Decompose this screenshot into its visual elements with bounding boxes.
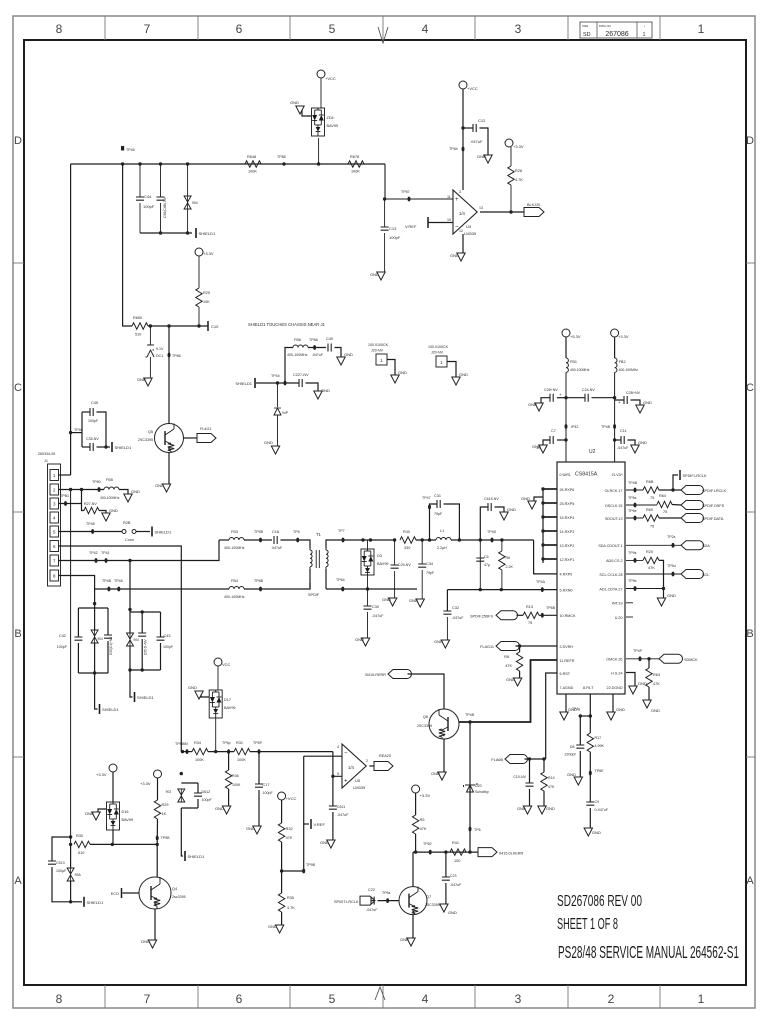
diode D20 schottky: [469, 722, 471, 852]
resistor R5: [415, 793, 417, 815]
svg-text:SHIELD1: SHIELD1: [87, 900, 104, 905]
svg-text:SHIELD1: SHIELD1: [199, 231, 216, 236]
svg-text:LM339: LM339: [464, 231, 477, 236]
svg-text:R14: R14: [548, 776, 555, 780]
svg-text:2: 2: [608, 992, 615, 1006]
node TP4D: [491, 538, 494, 543]
flag SDA: [681, 541, 704, 550]
svg-text:TP4P: TP4P: [633, 649, 643, 653]
svg-text:+VCC: +VCC: [325, 76, 336, 81]
svg-text:13.RXP2: 13.RXP2: [560, 544, 575, 548]
svg-text:DWG NO: DWG NO: [599, 24, 612, 28]
wire T1 secondary bottom: [326, 588, 417, 590]
node TP86: [168, 353, 171, 358]
svg-text:TP6p: TP6p: [222, 741, 231, 745]
capacitor C40: [328, 344, 331, 352]
svg-text:C30: C30: [372, 605, 379, 609]
svg-text:7: 7: [144, 22, 151, 36]
wire vref net vertical: [303, 756, 305, 871]
ground below Q4: [154, 909, 156, 940]
svg-text:47K: 47K: [420, 827, 427, 831]
svg-text:C23: C23: [450, 874, 457, 878]
svg-text:GND: GND: [643, 400, 652, 405]
wire top bus: [71, 163, 385, 165]
inductor L1: [428, 538, 431, 541]
node TP7: [342, 538, 345, 543]
svg-text:100pF: 100pF: [57, 645, 68, 649]
shield below C42: [99, 704, 101, 714]
ground at D8: [574, 777, 582, 785]
svg-text:1/4: 1/4: [348, 765, 354, 770]
svg-text:TP84: TP84: [449, 147, 458, 151]
svg-text:SD: SD: [583, 32, 591, 38]
svg-text:R26: R26: [515, 169, 522, 173]
resistor R40: [400, 537, 416, 543]
wire SDA row: [626, 544, 681, 546]
svg-text:OSCLK.15: OSCLK.15: [605, 504, 623, 508]
svg-text:1: 1: [698, 992, 705, 1006]
wire CDATA row: [626, 588, 664, 590]
inductor FB2: [614, 337, 616, 358]
node TP45: [121, 146, 124, 151]
svg-text:TP5P: TP5P: [253, 741, 263, 745]
op-amp U3: [453, 190, 477, 234]
ground at DGND: [607, 712, 615, 720]
svg-text:AD1.CDTA.27: AD1.CDTA.27: [599, 587, 622, 591]
capacitor C35-NV: [82, 446, 90, 448]
svg-text:V.REF: V.REF: [314, 822, 326, 827]
node TP6C: [541, 613, 544, 618]
svg-text:2SC3395: 2SC3395: [138, 438, 153, 442]
svg-text:R20: R20: [646, 550, 653, 554]
svg-text:C: C: [746, 382, 754, 394]
svg-text:47K: 47K: [648, 566, 655, 570]
svg-text:22.DGND: 22.DGND: [607, 686, 623, 690]
svg-text:100K: 100K: [237, 758, 246, 762]
svg-text:GND: GND: [141, 939, 150, 944]
resistor R650: [132, 323, 148, 329]
svg-text:25C3395: 25C3395: [425, 903, 440, 907]
svg-text:Q4: Q4: [172, 887, 177, 891]
ground at C227: [314, 391, 322, 399]
ground at C12: [484, 155, 492, 163]
svg-text:IP42: IP42: [571, 425, 578, 429]
svg-text:TP5s: TP5s: [628, 496, 637, 500]
svg-text:GND: GND: [651, 708, 660, 713]
svg-text:-047uF: -047uF: [366, 908, 378, 912]
svg-text:INT.19: INT.19: [612, 602, 623, 606]
resistor R32: [281, 800, 283, 823]
svg-text:B: B: [14, 628, 21, 640]
svg-text:C615-NV: C615-NV: [484, 497, 499, 501]
ground below Q8: [443, 739, 445, 772]
svg-text:Schottky: Schottky: [475, 790, 489, 794]
ground at C28: [535, 403, 543, 411]
resistor R6B: [643, 487, 659, 493]
svg-text:79pF: 79pF: [434, 512, 443, 516]
svg-text:TP5B: TP5B: [254, 530, 264, 534]
svg-text:GND: GND: [592, 830, 601, 835]
capacitor C29-NV: [393, 538, 396, 541]
svg-text:GND: GND: [155, 483, 164, 488]
svg-text:D: D: [14, 135, 22, 147]
node TPM row start: [181, 750, 184, 753]
capacitor C34: [421, 540, 423, 564]
capacitor C9: [589, 773, 591, 802]
svg-text:904: 904: [98, 637, 104, 641]
svg-text:C227-NV: C227-NV: [293, 373, 309, 377]
svg-text:TP41: TP41: [101, 551, 110, 555]
svg-text:A: A: [746, 875, 754, 887]
ground at C29: [388, 598, 396, 606]
capacitor C44: [138, 162, 141, 165]
capacitor D612: [197, 783, 199, 793]
svg-text:4: 4: [422, 22, 429, 36]
ground at C40: [337, 357, 345, 365]
svg-text:400-100MHz: 400-100MHz: [287, 353, 308, 357]
svg-text:GND: GND: [398, 370, 407, 375]
svg-text:SHIELD1: SHIELD1: [115, 445, 132, 450]
svg-text:GND: GND: [517, 806, 526, 811]
svg-text:10K: 10K: [203, 300, 210, 304]
wire U3 output: [480, 211, 524, 213]
node TP9B: [302, 869, 305, 874]
svg-text:R5: R5: [420, 818, 425, 822]
svg-text:TP6: TP6: [474, 828, 481, 832]
svg-text:PS28/48 SERVICE MANUAL 264562-: PS28/48 SERVICE MANUAL 264562-S1: [558, 942, 739, 962]
diode D4P: [277, 383, 279, 407]
node TP6 at D20: [469, 827, 472, 832]
wire RST net: [546, 673, 557, 759]
svg-text:GND: GND: [434, 639, 443, 644]
svg-text:GND: GND: [667, 593, 676, 598]
svg-text:TP46: TP46: [74, 428, 83, 432]
node TP88: [282, 162, 285, 165]
capacitor C17: [258, 752, 260, 784]
wire AGND: [565, 694, 567, 712]
svg-text:SPDIF.OSFS: SPDIF.OSFS: [702, 504, 725, 508]
node TP6p: [227, 749, 230, 754]
svg-text:C5: C5: [484, 555, 489, 559]
svg-text:TP88: TP88: [277, 155, 286, 159]
svg-text:0-047uF: 0-047uF: [595, 808, 609, 812]
svg-text:FB5: FB5: [106, 478, 113, 482]
svg-text:R6B: R6B: [646, 480, 654, 484]
ground at D17: [201, 691, 209, 697]
flag SPDIF.DATA: [681, 514, 704, 523]
svg-text:TP4B: TP4B: [601, 425, 611, 429]
svg-text:DC1: DC1: [156, 354, 163, 358]
terminal C10: [207, 321, 209, 331]
wire T1 secondary top: [326, 540, 395, 548]
svg-text:12: 12: [459, 229, 463, 233]
shield tap SPDIF.LRCLK: [673, 475, 678, 490]
svg-text:C34: C34: [426, 562, 433, 566]
svg-text:4.99K: 4.99K: [595, 744, 605, 748]
node TP84: [462, 147, 465, 152]
svg-text:100.0100CK: 100.0100CK: [368, 343, 389, 347]
svg-text:GND: GND: [477, 154, 486, 159]
suppressor 904 bottom: [70, 844, 72, 868]
svg-text:5: 5: [329, 22, 336, 36]
node TP6E: [589, 771, 592, 776]
svg-text:GND: GND: [507, 507, 516, 512]
svg-text:BAV99: BAV99: [122, 818, 134, 822]
svg-text:C24-NV: C24-NV: [582, 388, 595, 392]
transistor Q5: [155, 424, 184, 453]
resistor R29: [157, 778, 159, 800]
svg-text:R2B: R2B: [123, 521, 131, 525]
wire minus input U5: [304, 755, 342, 757]
inductor FB3 row: [219, 539, 229, 541]
shield at C35: [111, 442, 113, 452]
svg-text:GND: GND: [506, 677, 515, 682]
svg-text:TPM8M: TPM8M: [175, 742, 188, 746]
title block: [580, 22, 652, 38]
svg-text:GND: GND: [528, 402, 537, 407]
svg-text:R650: R650: [133, 316, 142, 320]
svg-text:R31: R31: [236, 741, 243, 745]
ground at C611: [327, 840, 335, 848]
wire vref to U3 minus: [428, 222, 453, 224]
svg-text:1/4: 1/4: [459, 211, 465, 216]
svg-text:-047uF: -047uF: [617, 446, 629, 450]
wire clkerr row: [413, 851, 478, 853]
svg-text:+: +: [344, 778, 348, 785]
svg-text:100pF: 100pF: [143, 204, 155, 209]
cap D35-NV branch: [141, 612, 143, 633]
node TP48: [91, 529, 94, 534]
svg-text:GND: GND: [320, 840, 329, 845]
svg-text:ECO: ECO: [111, 892, 119, 896]
stub U20: [626, 616, 633, 618]
node TP46: [69, 431, 72, 434]
svg-text:7.AGND: 7.AGND: [560, 686, 574, 690]
wire drop to C42 block: [94, 589, 96, 608]
node TP64: [341, 587, 344, 592]
svg-text:GND: GND: [450, 253, 459, 258]
jumper block J20 a: [376, 354, 387, 365]
svg-text:GND: GND: [431, 771, 440, 776]
svg-text:.047uF: .047uF: [312, 353, 324, 357]
svg-text:3.DVRH: 3.DVRH: [560, 645, 574, 649]
capacitor C11: [613, 438, 616, 441]
svg-text:GND: GND: [409, 598, 418, 603]
node TP6B: [259, 587, 262, 592]
capacitor C22: [371, 900, 375, 902]
svg-text:FB2: FB2: [619, 360, 626, 364]
wire OSCLK row: [626, 504, 657, 506]
svg-text:R8: R8: [504, 655, 509, 659]
svg-text:510: 510: [135, 333, 141, 337]
svg-text:R17: R17: [595, 736, 602, 740]
node C12 junction: [461, 126, 464, 129]
node TP6: [296, 538, 299, 543]
svg-text:D30(C4)+NV: D30(C4)+NV: [109, 636, 113, 655]
ground at C615: [500, 512, 508, 520]
svg-text:A: A: [14, 875, 22, 887]
svg-text:SDA CDOUT.1: SDA CDOUT.1: [598, 544, 622, 548]
svg-text:100: 100: [454, 859, 460, 863]
wire DGND: [612, 694, 614, 712]
ground at C7: [539, 445, 547, 453]
ruler ticks and labels: [104, 16, 106, 40]
svg-text:100.0100CK: 100.0100CK: [428, 345, 449, 349]
svg-text:TP6: TP6: [293, 530, 300, 534]
svg-text:7: 7: [144, 992, 151, 1006]
ground at FB5: [124, 494, 132, 502]
svg-text:GND: GND: [246, 826, 255, 831]
svg-text:TP64: TP64: [336, 578, 345, 582]
svg-text:1K: 1K: [162, 812, 167, 816]
svg-text:+3.3V: +3.3V: [140, 781, 151, 786]
svg-text:100pF: 100pF: [389, 235, 401, 240]
resistor R34: [181, 751, 192, 753]
svg-text:SHIELD1: SHIELD1: [155, 530, 172, 535]
svg-text:904: 904: [134, 638, 140, 642]
svg-text:U3: U3: [466, 224, 472, 229]
resistor R64: [657, 501, 672, 507]
node TP48b: [117, 587, 120, 592]
node TP4B base: [468, 720, 471, 723]
resistor R63: [648, 659, 650, 668]
svg-text:3: 3: [515, 22, 522, 36]
capacitor C20-NV: [613, 396, 616, 399]
svg-text:+3.3V: +3.3V: [420, 793, 431, 798]
wire cap tie row: [140, 232, 192, 234]
svg-text:1: 1: [643, 32, 646, 38]
resistor R25: [198, 256, 200, 288]
svg-text:R63: R63: [653, 673, 660, 677]
svg-text:2: 2: [366, 759, 368, 763]
svg-text:267086: 267086: [605, 31, 628, 38]
svg-text:SDOUT.13: SDOUT.13: [605, 517, 623, 521]
svg-text:.047uF: .047uF: [271, 546, 283, 550]
wire to Q5: [168, 326, 170, 424]
flag SDMCK: [659, 654, 683, 663]
capacitor C13: [384, 199, 386, 227]
svg-text:TP9e: TP9e: [628, 579, 637, 583]
svg-text:GND: GND: [616, 707, 625, 712]
power +3.3V at R26: [505, 139, 513, 147]
svg-text:9415.0LKERR: 9415.0LKERR: [499, 852, 524, 856]
svg-text:4: 4: [422, 992, 429, 1006]
svg-text:C11: C11: [620, 429, 627, 433]
svg-text:+VCC: +VCC: [286, 796, 297, 801]
svg-text:TP6e: TP6e: [628, 509, 637, 513]
svg-text:GND: GND: [321, 388, 330, 393]
flag SPDIF.OSCLK: [681, 501, 704, 510]
svg-text:C10-NV: C10-NV: [513, 775, 526, 779]
vref bar at U5: [304, 823, 309, 825]
svg-text:C17: C17: [263, 783, 270, 787]
svg-text:D20: D20: [475, 784, 482, 788]
svg-text:TP4B: TP4B: [628, 481, 638, 485]
svg-text:FB3: FB3: [231, 530, 238, 534]
svg-text:GND: GND: [546, 806, 555, 811]
ground at C10: [523, 806, 531, 814]
svg-text:R25: R25: [203, 291, 210, 295]
shield tie SHIELD1 a: [195, 228, 197, 238]
stub INT: [626, 602, 633, 604]
svg-text:−: −: [344, 750, 348, 757]
capacitor C28-NV: [564, 396, 567, 399]
svg-text:21.VD+: 21.VD+: [612, 473, 623, 477]
resistor R26: [510, 147, 512, 166]
wire pin1 to rail: [59, 474, 71, 476]
svg-text:TP88: TP88: [309, 338, 318, 342]
power +5.3V: [562, 329, 570, 337]
svg-text:SHIELD1 TOUCHES CHASSIS NEAR J: SHIELD1 TOUCHES CHASSIS NEAR J1: [248, 322, 326, 327]
svg-text:SHIELD1: SHIELD1: [102, 707, 119, 712]
svg-text:SHIELD1: SHIELD1: [188, 854, 205, 859]
capacitor C43 block: [130, 611, 161, 613]
wire bus to U3 plus: [385, 164, 453, 199]
capacitor D8 2200pF: [579, 716, 581, 745]
ground at C11: [631, 445, 639, 453]
svg-text:SHIELD1: SHIELD1: [137, 695, 154, 700]
svg-text:5: 5: [337, 772, 339, 776]
svg-text:25.RXP5: 25.RXP5: [560, 502, 575, 506]
svg-text:79pF: 79pF: [426, 571, 435, 575]
svg-text:15.RXP4: 15.RXP4: [560, 516, 575, 520]
node TP5P: [258, 749, 261, 754]
node TP6t: [386, 898, 389, 903]
svg-text:11.REFR: 11.REFR: [560, 659, 575, 663]
svg-text:904: 904: [192, 201, 198, 205]
svg-text:TP87: TP87: [401, 190, 410, 194]
wire to Q4: [156, 844, 158, 877]
node TP87: [408, 197, 411, 202]
svg-text:100K: 100K: [195, 758, 204, 762]
svg-text:TP9s: TP9s: [628, 551, 637, 555]
wire to shield below D612: [181, 808, 183, 856]
svg-text:14.RXP3: 14.RXP3: [560, 530, 575, 534]
resistor R17: [589, 716, 591, 733]
node TP42b: [565, 424, 568, 429]
svg-text:.047uF: .047uF: [470, 139, 483, 144]
svg-text:U2: U2: [589, 449, 596, 455]
svg-text:SPDIF.256FS: SPDIF.256FS: [470, 615, 493, 619]
ground at C17: [253, 826, 261, 834]
resistor R6: [500, 538, 503, 541]
flag FLAG1: [184, 437, 198, 439]
wire OMCK row: [626, 658, 659, 660]
capacitor C7: [564, 438, 567, 441]
op-amp U5: [342, 744, 366, 788]
svg-text:47K: 47K: [286, 836, 293, 840]
svg-text:GND: GND: [521, 496, 530, 501]
svg-text:T1: T1: [316, 532, 322, 537]
wire Q7 collector: [412, 852, 414, 887]
suppressor in C42 block: [91, 630, 98, 636]
wire C42 block to shield: [95, 673, 98, 709]
svg-text:GND: GND: [137, 377, 146, 382]
wire left rail vertical: [70, 164, 72, 475]
svg-text:ZD4: ZD4: [327, 116, 334, 120]
svg-text:100pF: 100pF: [88, 419, 99, 423]
svg-text:SHIELD1: SHIELD1: [235, 381, 252, 386]
wire bus drop to R650 row: [123, 164, 132, 326]
ground at C32: [441, 640, 449, 648]
svg-text:OLRCK.17: OLRCK.17: [605, 489, 623, 493]
svg-text:400-100MHz: 400-100MHz: [100, 496, 120, 500]
svg-text:C13: C13: [389, 226, 397, 231]
svg-text:D612: D612: [202, 790, 211, 794]
svg-text:10: 10: [447, 218, 451, 222]
svg-text:100µF: 100µF: [56, 869, 67, 873]
svg-text:R40: R40: [403, 530, 410, 534]
